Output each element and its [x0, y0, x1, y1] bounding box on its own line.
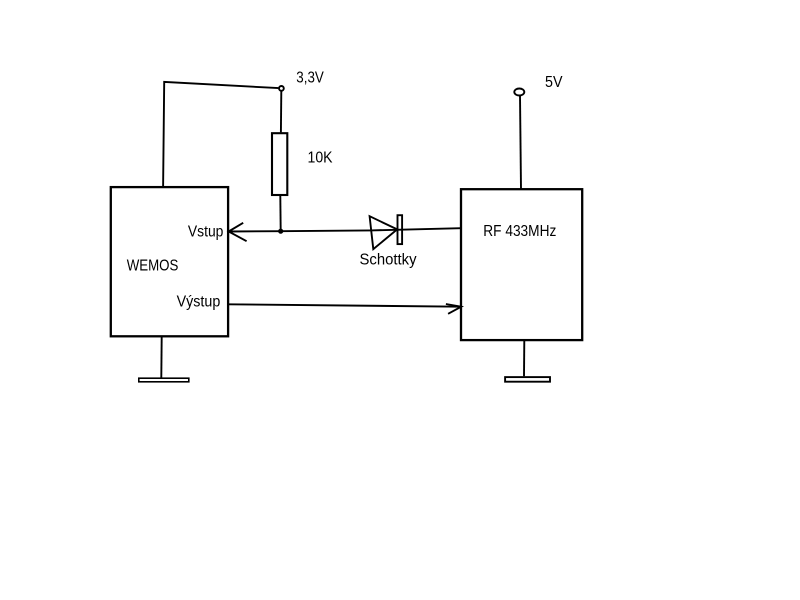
wire 3.3V terminal to resistor R1: [280, 91, 282, 132]
wire Výstup from WEMOS to RF box: [228, 304, 461, 306]
svg-text:5V: 5V: [545, 74, 563, 91]
wire resistor R1 to node A: [279, 196, 281, 231]
wire Vstup net from WEMOS to RF box through diode: [229, 228, 461, 231]
wire 5V terminal to RF box: [520, 96, 521, 190]
terminal 3.3V: [279, 86, 284, 91]
wire RF box to ground: [523, 340, 525, 376]
wire WEMOS to ground: [160, 336, 162, 377]
ground under RF box: [505, 377, 550, 382]
arrowhead into WEMOS Vstup: [229, 223, 247, 241]
resistor R1 10K: [272, 133, 287, 195]
svg-text:RF 433MHz: RF 433MHz: [483, 223, 556, 240]
WEMOS box U1: [111, 187, 228, 336]
svg-text:WEMOS: WEMOS: [127, 257, 179, 274]
terminal 5V: [514, 89, 524, 96]
diode D1 Schottky triangle: [370, 216, 398, 249]
svg-text:Vstup: Vstup: [188, 223, 224, 240]
RF 433MHz box U2: [461, 189, 582, 340]
svg-text:Výstup: Výstup: [177, 293, 221, 310]
wire top from WEMOS to 3.3V terminal: [163, 82, 278, 187]
svg-text:Schottky: Schottky: [360, 251, 417, 268]
diode D1 cathode bar: [398, 215, 403, 244]
svg-text:3,3V: 3,3V: [296, 69, 324, 86]
arrowhead into RF box: [446, 304, 461, 314]
ground under WEMOS: [139, 378, 189, 382]
svg-text:10K: 10K: [308, 149, 333, 166]
node A junction dot: [278, 229, 283, 234]
